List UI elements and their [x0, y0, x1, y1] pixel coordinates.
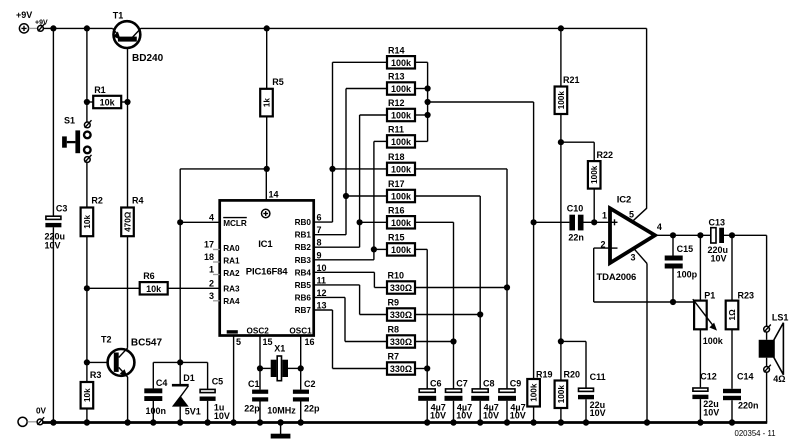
svg-text:100k: 100k [391, 164, 412, 174]
svg-text:T1: T1 [113, 11, 124, 21]
crystal X1 [260, 344, 301, 416]
op-amp IC2 TDA2006 [597, 195, 656, 284]
capacitor C11 [561, 341, 606, 422]
svg-text:100k: 100k [391, 111, 412, 121]
resistor R4 [121, 102, 143, 348]
resistor R9 [387, 298, 415, 321]
svg-text:MCLR: MCLR [223, 219, 247, 228]
connector plug 0V [27, 417, 44, 425]
ground symbol [271, 423, 291, 439]
svg-text:RB0: RB0 [295, 218, 312, 227]
connector plug LS1 bottom [764, 365, 771, 423]
resistor R17 [387, 179, 415, 202]
svg-text:5: 5 [629, 210, 634, 220]
IC IC1 PIC16F84 [220, 200, 314, 335]
svg-text:10k: 10k [100, 98, 116, 108]
svg-text:R2: R2 [91, 196, 103, 206]
pin 5 wire [234, 336, 241, 423]
svg-text:C12: C12 [700, 371, 717, 381]
capacitor C12 [692, 371, 719, 422]
svg-text:R6: R6 [143, 271, 155, 281]
svg-text:22n: 22n [568, 232, 584, 242]
svg-text:RB7: RB7 [295, 306, 312, 315]
capacitor C1 [244, 379, 268, 423]
svg-text:R20: R20 [564, 370, 581, 380]
svg-text:TDA2006: TDA2006 [597, 272, 637, 283]
svg-text:10k: 10k [83, 388, 92, 402]
resistor R3 [81, 370, 102, 423]
pin 16 OSC1 wire [298, 336, 315, 390]
svg-text:C3: C3 [56, 204, 68, 214]
capacitor C15 [665, 235, 698, 302]
resistor R20 [555, 370, 580, 423]
resistor R18 [387, 152, 415, 175]
svg-text:12: 12 [317, 288, 327, 298]
switch S1 [62, 115, 91, 207]
wire R9 right [415, 314, 480, 316]
resistor R14 [387, 46, 415, 69]
pin 18 tick and label [204, 252, 220, 262]
node R2/R6 [84, 285, 90, 291]
resistor R8 [387, 325, 415, 348]
svg-text:470Ω: 470Ω [124, 211, 133, 232]
wire R7 right [415, 368, 427, 370]
svg-text:R8: R8 [388, 325, 400, 335]
wire VDD net [153, 166, 270, 366]
svg-text:10V: 10V [456, 411, 472, 421]
svg-text:C13: C13 [709, 218, 726, 228]
wire R10 right [415, 287, 507, 289]
node R21/R22 bias [558, 139, 564, 145]
svg-text:R21: R21 [563, 75, 580, 85]
svg-text:R1: R1 [94, 85, 106, 95]
svg-text:C1: C1 [248, 379, 260, 389]
svg-text:10V: 10V [510, 411, 526, 421]
svg-text:LS1: LS1 [772, 312, 789, 322]
wire R8 right [415, 341, 454, 343]
wire RB4 to R10 [314, 272, 387, 287]
svg-text:4: 4 [209, 213, 214, 223]
svg-text:5: 5 [236, 337, 241, 347]
svg-text:330Ω: 330Ω [390, 337, 412, 347]
wire IC2 pin 2 feedback [594, 248, 694, 305]
wire R15 right to C6 column [415, 249, 430, 388]
capacitor C13 [708, 218, 729, 264]
svg-text:R11: R11 [388, 125, 404, 135]
svg-text:C15: C15 [677, 244, 694, 254]
svg-text:1k: 1k [263, 98, 272, 108]
wire RB7 to R7 [314, 310, 387, 369]
resistor R16 [387, 206, 415, 229]
svg-text:14: 14 [269, 190, 279, 200]
resistor R5 [260, 28, 284, 169]
wire R16 right to C7 column [415, 222, 457, 388]
svg-text:1: 1 [209, 265, 214, 275]
svg-text:C2: C2 [304, 379, 316, 389]
svg-text:11: 11 [317, 275, 327, 285]
node R1 left [84, 99, 90, 105]
svg-text:RB1: RB1 [295, 231, 312, 240]
transistor T1 BD240 [113, 11, 164, 103]
svg-text:OSC1: OSC1 [289, 326, 312, 335]
svg-text:R3: R3 [90, 370, 102, 380]
svg-text:R9: R9 [388, 298, 400, 308]
svg-text:220n: 220n [738, 401, 759, 411]
svg-text:R22: R22 [597, 150, 614, 160]
loudspeaker LS1 [759, 312, 789, 384]
svg-text:10V: 10V [214, 411, 230, 421]
svg-text:RB6: RB6 [295, 293, 312, 302]
svg-text:R4: R4 [132, 196, 144, 206]
svg-text:100k: 100k [391, 84, 412, 94]
svg-text:R12: R12 [388, 98, 405, 108]
wire RB3 riser [314, 141, 387, 259]
svg-text:R23: R23 [738, 291, 755, 301]
svg-text:100n: 100n [146, 406, 167, 416]
resistor R19 [527, 222, 552, 422]
svg-text:100k: 100k [391, 218, 412, 228]
transistor T2 BC547 [87, 335, 163, 423]
svg-text:IC1: IC1 [258, 239, 273, 250]
svg-text:22p: 22p [244, 403, 260, 413]
svg-text:100k: 100k [557, 91, 566, 110]
svg-text:R18: R18 [388, 152, 405, 162]
svg-text:C7: C7 [456, 379, 468, 389]
capacitor C4 [144, 362, 167, 422]
resistor R11 [387, 125, 415, 148]
svg-text:7: 7 [317, 225, 322, 235]
IC2 pin 3 wire [631, 249, 648, 422]
svg-text:100k: 100k [391, 137, 412, 147]
wire summing ladder common [415, 62, 534, 222]
wire RB0 riser [314, 62, 387, 222]
wire RB2 riser [314, 115, 387, 247]
IC2 pin 5 wire [629, 28, 647, 221]
svg-text:5V1: 5V1 [185, 407, 201, 417]
wire +9V rail [43, 25, 646, 31]
svg-text:13: 13 [317, 301, 327, 311]
potentiometer P1 [693, 235, 724, 387]
svg-text:18: 18 [204, 252, 214, 262]
svg-text:R7: R7 [388, 352, 400, 362]
capacitor C14 [723, 371, 759, 422]
svg-text:100k: 100k [703, 336, 724, 346]
svg-text:R19: R19 [536, 370, 553, 380]
wire RB6 to R8 [314, 297, 387, 341]
svg-text:T2: T2 [101, 335, 112, 345]
svg-text:PIC16F84: PIC16F84 [246, 266, 288, 277]
svg-text:C4: C4 [156, 378, 168, 388]
svg-text:3: 3 [209, 291, 214, 301]
svg-text:0V: 0V [36, 407, 47, 416]
resistor R21 [555, 28, 580, 380]
svg-text:BC547: BC547 [131, 338, 163, 349]
svg-text:S1: S1 [64, 115, 75, 125]
svg-text:R16: R16 [388, 206, 405, 216]
svg-text:C5: C5 [212, 377, 224, 387]
svg-text:C11: C11 [590, 372, 606, 382]
capacitor C5 [200, 362, 230, 422]
svg-text:P1: P1 [704, 291, 715, 301]
svg-text:+9V: +9V [16, 10, 32, 20]
resistor R10 [387, 271, 415, 294]
svg-text:9: 9 [317, 250, 322, 260]
svg-text:10V: 10V [430, 411, 446, 421]
svg-text:RB2: RB2 [295, 243, 312, 252]
svg-text:10V: 10V [590, 408, 606, 418]
svg-text:RB5: RB5 [295, 281, 312, 290]
svg-text:C6: C6 [430, 379, 442, 389]
svg-text:BD240: BD240 [132, 53, 164, 64]
svg-text:RA3: RA3 [223, 284, 240, 293]
svg-text:15: 15 [263, 337, 273, 347]
svg-text:17: 17 [204, 240, 214, 250]
svg-text:RA2: RA2 [223, 269, 240, 278]
svg-text:100k: 100k [391, 245, 412, 255]
capacitor C8 [471, 379, 499, 423]
wire signal line to amp [534, 219, 610, 225]
svg-text:16: 16 [305, 337, 315, 347]
svg-text:R15: R15 [388, 233, 405, 243]
svg-text:100k: 100k [391, 192, 412, 202]
svg-text:RA0: RA0 [223, 244, 240, 253]
svg-text:R5: R5 [272, 77, 284, 87]
resistor R7 [387, 352, 415, 375]
capacitor C6 [418, 379, 446, 423]
svg-text:330Ω: 330Ω [390, 283, 412, 293]
node rail-C3 [50, 25, 56, 31]
svg-text:D1: D1 [183, 373, 195, 383]
svg-text:100k: 100k [530, 383, 539, 402]
node rail-R5 [264, 25, 270, 31]
wire R1/S1 column from rail [86, 28, 88, 122]
svg-text:RB4: RB4 [295, 268, 312, 277]
svg-text:IC2: IC2 [617, 195, 631, 206]
wire 0V ground rail [43, 419, 767, 425]
svg-text:10V: 10V [703, 407, 719, 417]
capacitor C2 [293, 379, 320, 423]
svg-text:10: 10 [317, 263, 327, 273]
capacitor C10 [567, 203, 584, 242]
svg-text:10V: 10V [45, 241, 61, 251]
node summing/signal [531, 219, 537, 225]
svg-text:100k: 100k [391, 58, 412, 68]
svg-text:R13: R13 [388, 72, 405, 82]
node R2/T2 base [84, 359, 90, 365]
svg-text:C8: C8 [483, 379, 495, 389]
svg-text:R17: R17 [388, 179, 405, 189]
svg-text:100p: 100p [677, 270, 698, 280]
terminal 0V [18, 407, 47, 427]
resistor R15 [387, 233, 415, 256]
svg-text:8: 8 [317, 238, 322, 248]
pin 17 tick and label [204, 240, 220, 250]
svg-text:C9: C9 [510, 379, 522, 389]
wire RB5 to R9 [314, 285, 387, 315]
svg-text:020354 - 11: 020354 - 11 [735, 429, 776, 438]
svg-text:2: 2 [209, 279, 214, 289]
svg-text:10MHz: 10MHz [267, 406, 296, 416]
connector plug LS1 top [764, 325, 771, 333]
node rail-R1/S1 [84, 25, 90, 31]
zener diode D1 [172, 362, 201, 422]
svg-text:X1: X1 [274, 344, 285, 354]
resistor R13 [387, 72, 415, 95]
svg-text:4: 4 [657, 222, 662, 232]
svg-text:10k: 10k [83, 215, 92, 229]
svg-text:+9V: +9V [35, 20, 48, 27]
connector plug +9V [29, 20, 48, 32]
resistor R2 [81, 196, 103, 383]
svg-text:6: 6 [317, 213, 322, 223]
pin 3 tick and label [209, 291, 220, 301]
svg-text:10V: 10V [483, 411, 499, 421]
resistor R1 [87, 85, 128, 108]
svg-text:10V: 10V [711, 253, 727, 263]
svg-text:C14: C14 [737, 371, 754, 381]
capacitor C9 [498, 379, 526, 423]
wire R17 right to C8 column [415, 196, 483, 389]
svg-text:RB3: RB3 [295, 256, 312, 265]
capacitor C3 [45, 28, 68, 422]
svg-text:OSC2: OSC2 [247, 326, 270, 335]
svg-text:10k: 10k [146, 284, 162, 294]
node bias/C11 [558, 338, 564, 344]
svg-text:4Ω: 4Ω [773, 374, 785, 384]
svg-text:330Ω: 330Ω [390, 310, 412, 320]
node rail-R21 [558, 25, 564, 31]
capacitor C7 [445, 379, 473, 423]
svg-text:330Ω: 330Ω [390, 364, 412, 374]
svg-text:1: 1 [602, 210, 607, 220]
terminal +9V [16, 10, 32, 33]
svg-text:100k: 100k [557, 385, 566, 404]
pin 15 OSC2 wire [257, 336, 273, 390]
resistor R6 [87, 271, 220, 295]
pin 1 tick and label [209, 265, 220, 275]
svg-text:22p: 22p [304, 403, 320, 413]
resistor R12 [387, 98, 415, 121]
wire RB1 riser [314, 89, 387, 235]
svg-text:C10: C10 [567, 203, 584, 213]
wire IC2 output [655, 232, 767, 326]
svg-text:R10: R10 [388, 271, 405, 281]
svg-text:RA4: RA4 [223, 297, 240, 306]
svg-text:100k: 100k [590, 165, 599, 184]
svg-text:RA1: RA1 [223, 257, 240, 266]
svg-text:R14: R14 [388, 46, 405, 56]
svg-text:1Ω: 1Ω [728, 309, 737, 321]
svg-text:3: 3 [631, 253, 636, 263]
resistor R23 [726, 235, 754, 388]
resistor R22 [561, 142, 613, 222]
node R1 right / T1 base [124, 99, 130, 105]
wire R18 right to C9 column [415, 169, 510, 389]
